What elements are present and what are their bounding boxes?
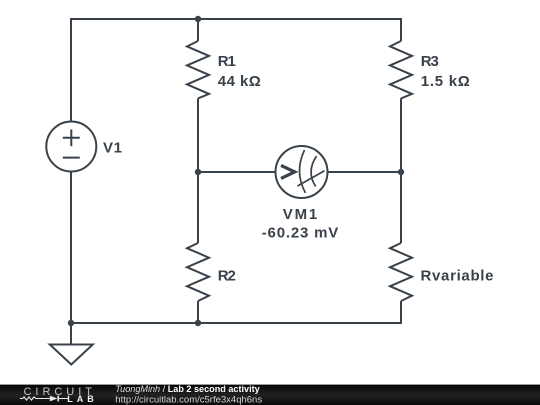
svg-text:R2: R2 bbox=[218, 268, 236, 285]
svg-text:1.5 kΩ: 1.5 kΩ bbox=[421, 73, 470, 90]
svg-text:R1: R1 bbox=[218, 53, 236, 70]
value -60.23 mV bbox=[262, 225, 339, 242]
logo LAB text bbox=[67, 394, 94, 404]
node ground junction bbox=[68, 320, 74, 326]
svg-text:VM1: VM1 bbox=[283, 206, 318, 223]
value 44 kΩ bbox=[218, 73, 261, 90]
svg-text:http://circuitlab.com/c5rfe3x4: http://circuitlab.com/c5rfe3x4qh6ns bbox=[115, 395, 262, 405]
resistor R3 bbox=[390, 18, 412, 172]
label R3 bbox=[421, 53, 439, 70]
logo resistor zigzag and diode bbox=[20, 396, 68, 402]
svg-text:V1: V1 bbox=[103, 140, 122, 157]
voltage source V1 bbox=[46, 122, 96, 172]
label VM1 bbox=[283, 206, 318, 223]
node middle rail right bbox=[398, 169, 404, 175]
node middle rail left bbox=[195, 169, 201, 175]
wire middle rail left bbox=[198, 171, 276, 173]
footer title line bbox=[115, 384, 260, 394]
value 1.5 kΩ bbox=[421, 73, 470, 90]
resistor R1 bbox=[187, 19, 209, 172]
ground bbox=[50, 323, 93, 365]
svg-text:Rvariable: Rvariable bbox=[421, 268, 494, 285]
svg-text:R3: R3 bbox=[421, 53, 439, 70]
svg-text:-60.23 mV: -60.23 mV bbox=[262, 225, 339, 242]
resistor Rvariable bbox=[390, 172, 412, 324]
wire bottom rail bbox=[71, 322, 401, 324]
label V1 bbox=[103, 140, 122, 157]
label R2 bbox=[218, 268, 236, 285]
footer url line bbox=[115, 395, 262, 405]
voltmeter VM1 bbox=[276, 146, 328, 198]
svg-text:44 kΩ: 44 kΩ bbox=[218, 73, 261, 90]
wire left branch lower bbox=[70, 172, 72, 324]
svg-text:LAB: LAB bbox=[67, 394, 94, 404]
wire middle rail right bbox=[328, 171, 402, 173]
node bottom of R2 bbox=[195, 320, 201, 326]
svg-text:TuongMinh / Lab 2 second activ: TuongMinh / Lab 2 second activity bbox=[115, 384, 260, 394]
wire left branch upper bbox=[70, 18, 72, 122]
logo CIRCUIT text bbox=[24, 386, 93, 398]
wire top rail bbox=[71, 18, 401, 20]
label Rvariable bbox=[421, 268, 494, 285]
label R1 bbox=[218, 53, 236, 70]
footer bar bbox=[0, 385, 540, 405]
node top of R1 bbox=[195, 16, 201, 22]
resistor R2 bbox=[187, 172, 209, 323]
